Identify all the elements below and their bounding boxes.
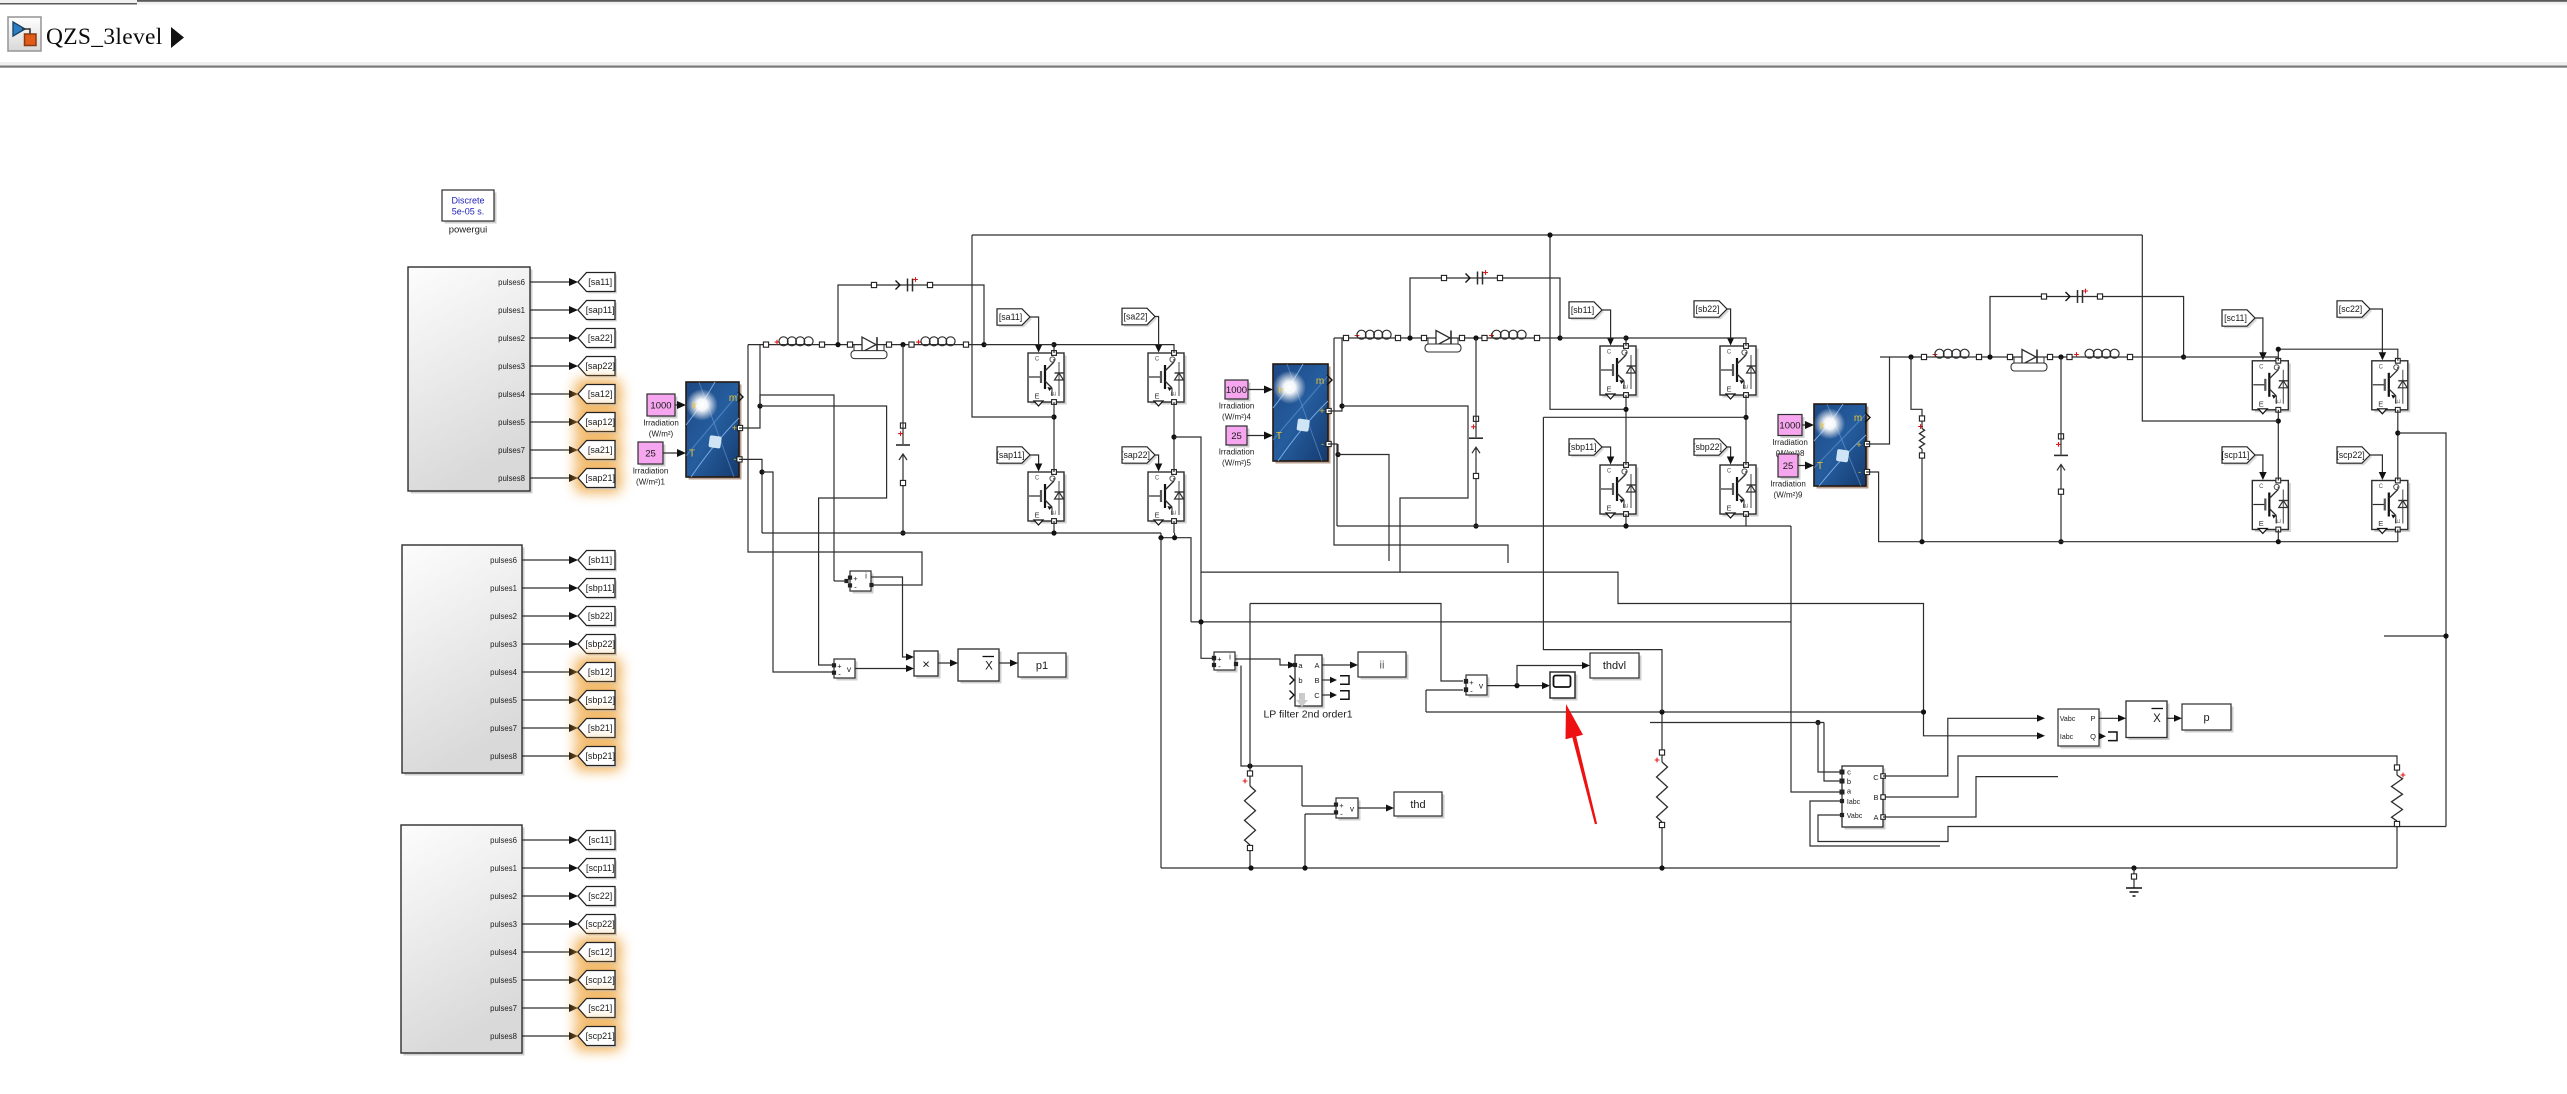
svg-text:pulses5: pulses5 — [490, 976, 518, 985]
svg-text:Irradiation: Irradiation — [1772, 438, 1808, 447]
svg-text:E: E — [1726, 385, 1731, 394]
svg-text:c: c — [1847, 768, 1851, 777]
svg-text:pulses1: pulses1 — [498, 306, 525, 315]
svg-text:Irradiation: Irradiation — [1219, 402, 1255, 411]
svg-text:ii: ii — [1380, 660, 1385, 672]
svg-text:pulses3: pulses3 — [498, 362, 525, 371]
svg-text:pulses5: pulses5 — [490, 696, 518, 705]
svg-text:[sb11]: [sb11] — [1571, 305, 1594, 315]
svg-text:T: T — [1276, 431, 1282, 442]
svg-text:C: C — [1314, 691, 1320, 700]
svg-text:+: + — [1319, 406, 1324, 416]
svg-text:[scp21]: [scp21] — [586, 1031, 615, 1041]
svg-text:b: b — [1847, 777, 1851, 786]
svg-text:[sa22]: [sa22] — [1124, 312, 1148, 322]
svg-text:[sa22]: [sa22] — [588, 333, 613, 343]
svg-text:b: b — [1298, 676, 1302, 685]
svg-text:pulses6: pulses6 — [498, 278, 525, 287]
svg-text:p: p — [2203, 712, 2209, 724]
svg-text:Vabc: Vabc — [1847, 813, 1863, 820]
svg-text:-: - — [1340, 809, 1343, 818]
svg-text:-: - — [838, 670, 841, 679]
svg-text:Vabc: Vabc — [2060, 716, 2076, 723]
svg-text:[sa11]: [sa11] — [999, 312, 1022, 322]
svg-text:C: C — [2379, 484, 2384, 490]
svg-text:5e-05 s.: 5e-05 s. — [452, 207, 485, 217]
svg-text:[sc22]: [sc22] — [2339, 304, 2362, 314]
svg-text:B: B — [1314, 676, 1319, 685]
svg-text:E: E — [2259, 519, 2264, 528]
svg-text:pulses3: pulses3 — [490, 920, 517, 929]
svg-text:X: X — [2153, 713, 2161, 725]
svg-text:i: i — [865, 572, 867, 581]
svg-text:E: E — [1606, 385, 1611, 394]
svg-text:m: m — [729, 393, 737, 404]
svg-text:[sap22]: [sap22] — [1121, 450, 1150, 460]
svg-text:[sc21]: [sc21] — [588, 1003, 612, 1013]
svg-text:Iabc: Iabc — [1847, 799, 1861, 806]
svg-text:×: × — [922, 657, 930, 672]
svg-text:(W/m²)5: (W/m²)5 — [1222, 459, 1251, 468]
svg-text:[sa11]: [sa11] — [588, 277, 612, 287]
svg-text:pulses4: pulses4 — [498, 390, 526, 399]
svg-text:E: E — [1034, 511, 1039, 520]
svg-text:pulses1: pulses1 — [490, 864, 517, 873]
svg-text:-: - — [1321, 439, 1324, 449]
svg-text:[sap12]: [sap12] — [585, 417, 615, 427]
svg-text:E: E — [1726, 504, 1731, 513]
svg-text:[sc11]: [sc11] — [589, 835, 612, 845]
svg-text:B: B — [1873, 793, 1878, 802]
svg-text:-: - — [854, 582, 857, 591]
svg-text:p1: p1 — [1036, 660, 1048, 672]
svg-text:i: i — [1229, 653, 1231, 662]
svg-text:pulses7: pulses7 — [498, 446, 525, 455]
svg-text:thd: thd — [1410, 799, 1425, 811]
svg-text:Ir: Ir — [1278, 385, 1284, 395]
svg-text:P: P — [2090, 714, 2095, 723]
svg-text:[sbp11]: [sbp11] — [586, 583, 615, 593]
svg-text:[sa21]: [sa21] — [588, 445, 613, 455]
svg-text:E: E — [1034, 392, 1039, 401]
svg-text:1000: 1000 — [1226, 385, 1247, 396]
svg-text:C: C — [1873, 773, 1879, 782]
svg-text:pulses7: pulses7 — [490, 1004, 517, 1013]
svg-text:m: m — [1854, 413, 1862, 424]
svg-text:E: E — [1154, 511, 1159, 520]
svg-text:[sbp21]: [sbp21] — [585, 751, 615, 761]
svg-text:m: m — [1316, 376, 1324, 387]
svg-text:Irradiation: Irradiation — [633, 467, 669, 476]
svg-text:-: - — [1218, 662, 1221, 671]
svg-text:(W/m²)1: (W/m²)1 — [636, 478, 665, 487]
svg-text:T: T — [689, 449, 695, 460]
svg-text:[scp11]: [scp11] — [2222, 450, 2250, 460]
svg-text:-: - — [1470, 686, 1473, 695]
svg-text:pulses7: pulses7 — [490, 724, 517, 733]
svg-text:Ir: Ir — [691, 401, 697, 411]
svg-text:C: C — [1607, 350, 1612, 356]
svg-text:C: C — [2259, 364, 2264, 370]
svg-text:-: - — [1858, 467, 1861, 477]
svg-text:pulses2: pulses2 — [498, 334, 525, 343]
svg-text:25: 25 — [1783, 461, 1794, 472]
svg-text:25: 25 — [645, 449, 656, 460]
svg-text:E: E — [1606, 504, 1611, 513]
svg-text:(W/m²): (W/m²) — [649, 430, 674, 439]
svg-text:C: C — [1155, 357, 1160, 363]
svg-text:[sap22]: [sap22] — [585, 361, 615, 371]
svg-text:C: C — [1727, 469, 1732, 475]
svg-text:[sap21]: [sap21] — [585, 473, 615, 483]
svg-text:E: E — [2378, 399, 2383, 408]
svg-text:+: + — [732, 423, 737, 433]
svg-text:E: E — [1154, 392, 1159, 401]
svg-text:pulses5: pulses5 — [498, 418, 526, 427]
svg-text:powergui: powergui — [449, 225, 488, 236]
svg-text:pulses6: pulses6 — [490, 556, 517, 565]
svg-text:X: X — [985, 661, 993, 673]
svg-text:Ir: Ir — [1819, 421, 1825, 431]
svg-text:[sb22]: [sb22] — [1696, 304, 1720, 314]
svg-text:Irradiation: Irradiation — [1770, 480, 1806, 489]
svg-text:[scp22]: [scp22] — [586, 919, 615, 929]
svg-text:[scp22]: [scp22] — [2336, 450, 2364, 460]
svg-text:[sbp12]: [sbp12] — [585, 695, 615, 705]
svg-text:+: + — [1856, 440, 1861, 450]
svg-text:C: C — [1035, 476, 1040, 482]
svg-text:[sc11]: [sc11] — [2224, 313, 2247, 323]
svg-text:pulses2: pulses2 — [490, 612, 517, 621]
svg-text:[sap11]: [sap11] — [996, 450, 1024, 460]
svg-text:Q: Q — [2090, 732, 2096, 741]
svg-text:[sb22]: [sb22] — [588, 611, 613, 621]
svg-text:pulses8: pulses8 — [490, 1032, 517, 1041]
svg-text:A: A — [1314, 661, 1319, 670]
svg-text:[sb21]: [sb21] — [588, 723, 613, 733]
svg-text:1000: 1000 — [1779, 421, 1800, 432]
svg-text:[sb11]: [sb11] — [588, 555, 612, 565]
svg-text:C: C — [1607, 469, 1612, 475]
svg-text:QZS_3level: QZS_3level — [46, 24, 163, 50]
svg-text:E: E — [2378, 519, 2383, 528]
svg-text:[sbp11]: [sbp11] — [1568, 442, 1596, 452]
svg-text:pulses8: pulses8 — [498, 474, 525, 483]
svg-text:pulses6: pulses6 — [490, 836, 517, 845]
svg-text:Discrete: Discrete — [451, 196, 484, 206]
svg-text:A: A — [1873, 813, 1878, 822]
svg-text:pulses8: pulses8 — [490, 752, 517, 761]
svg-text:[sbp22]: [sbp22] — [585, 639, 615, 649]
svg-text:[sa12]: [sa12] — [588, 389, 613, 399]
svg-text:25: 25 — [1231, 431, 1242, 442]
svg-text:LP filter 2nd order1: LP filter 2nd order1 — [1263, 709, 1352, 721]
svg-text:E: E — [2259, 399, 2264, 408]
svg-text:thdvl: thdvl — [1603, 660, 1626, 672]
svg-text:-: - — [734, 454, 737, 464]
svg-text:pulses2: pulses2 — [490, 892, 517, 901]
svg-text:[sbp22]: [sbp22] — [1693, 442, 1722, 452]
svg-text:[scp12]: [scp12] — [586, 975, 615, 985]
svg-text:[sap11]: [sap11] — [586, 305, 615, 315]
svg-text:Irradiation: Irradiation — [643, 419, 679, 428]
svg-text:pulses4: pulses4 — [490, 668, 518, 677]
svg-text:C: C — [1035, 357, 1040, 363]
svg-text:[sc22]: [sc22] — [588, 891, 612, 901]
svg-text:(W/m²)4: (W/m²)4 — [1222, 413, 1251, 422]
svg-text:[sc12]: [sc12] — [588, 947, 612, 957]
svg-text:Iabc: Iabc — [2060, 734, 2074, 741]
svg-text:C: C — [1155, 476, 1160, 482]
svg-text:(W/m²)9: (W/m²)9 — [1774, 491, 1803, 500]
svg-text:1000: 1000 — [650, 401, 671, 412]
svg-text:[sb12]: [sb12] — [588, 667, 613, 677]
svg-text:C: C — [2379, 364, 2384, 370]
svg-text:pulses3: pulses3 — [490, 640, 517, 649]
svg-text:Irradiation: Irradiation — [1219, 448, 1255, 457]
svg-text:[scp11]: [scp11] — [586, 863, 614, 873]
svg-text:pulses1: pulses1 — [490, 584, 517, 593]
svg-text:pulses4: pulses4 — [490, 948, 518, 957]
svg-text:C: C — [1727, 350, 1732, 356]
svg-text:C: C — [2259, 484, 2264, 490]
svg-text:T: T — [1817, 461, 1823, 472]
